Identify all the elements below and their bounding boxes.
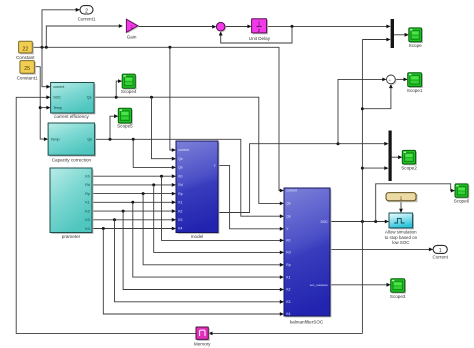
- scope block Scope5: [120, 110, 133, 125]
- svg-text:Allow simulation: Allow simulation: [385, 229, 417, 234]
- subsystem block kalmanfilterSOC: [285, 189, 331, 317]
- wire: up to Current1 outport: [42, 10, 77, 48]
- sum block Sum1: [216, 22, 226, 32]
- svg-text:Current: Current: [433, 254, 449, 259]
- svg-text:Rp: Rp: [286, 263, 290, 267]
- svg-text:Rd: Rd: [178, 183, 182, 187]
- wire: Mux1 output to Scope: [394, 34, 405, 36]
- junction Rd branch: [152, 183, 155, 186]
- wire: down to model current input: [170, 47, 173, 150]
- outport Current1: [80, 6, 93, 15]
- svg-text:K2: K2: [85, 209, 89, 213]
- wire: branch to model Qe input 3: [133, 139, 172, 167]
- port labels prameter: [85, 175, 90, 231]
- svg-text:Qe: Qe: [87, 96, 92, 100]
- svg-text:current efficiency: current efficiency: [54, 114, 89, 119]
- wire: constant 1 to stop block top: [400, 201, 402, 210]
- junction K2 branch: [122, 210, 125, 213]
- junction to Sum2: [337, 142, 340, 145]
- svg-text:Rp: Rp: [178, 192, 182, 196]
- svg-text:K4: K4: [85, 227, 89, 231]
- svg-text:K1: K1: [286, 275, 290, 279]
- svg-text:Rd: Rd: [85, 183, 90, 187]
- svg-text:K1: K1: [85, 201, 89, 205]
- wire: kalman output 2 to Current outport: [330, 248, 430, 250]
- svg-text:Constant1: Constant1: [17, 76, 38, 81]
- svg-text:Temp: Temp: [51, 138, 60, 142]
- subsystem block Capacity correction: [50, 124, 97, 156]
- unit delay block: [253, 20, 268, 34]
- wire: current efficiency Qe to kalman Qe1: [94, 97, 281, 203]
- svg-text:K3: K3: [178, 218, 182, 222]
- svg-text:Qe: Qe: [178, 166, 183, 170]
- svg-text:Scope1: Scope1: [407, 88, 423, 93]
- wire: Mux2 output to Scope2: [392, 156, 399, 158]
- wire: branch to current efficiency Temp: [40, 107, 47, 109]
- junction SOC to vertical bus: [361, 220, 364, 223]
- svg-text:Scope: Scope: [409, 43, 422, 48]
- svg-text:K0: K0: [178, 174, 182, 178]
- svg-text:Current1: Current1: [78, 16, 96, 21]
- svg-text:Qe: Qe: [87, 138, 92, 142]
- wire: to Gain input: [46, 26, 119, 47]
- wire: Capacity correction Qe to kalman Qe2: [95, 139, 281, 216]
- svg-text:Qe: Qe: [286, 214, 291, 218]
- wire: branch to model Qe input 2: [152, 97, 173, 159]
- svg-text:Memory: Memory: [194, 342, 211, 347]
- outport Current: [433, 245, 447, 254]
- port labels Capacity correction: [51, 138, 92, 142]
- wire: model output 2 up to Mux2 input 1: [218, 144, 385, 213]
- junction to model Qe: [150, 96, 153, 99]
- wire: K2 wrap-around to kalman: [123, 211, 280, 289]
- junction SOC to Scope6: [374, 220, 377, 223]
- mux block Mux1: [391, 19, 394, 48]
- constant block 25: [21, 62, 36, 75]
- svg-text:1: 1: [439, 248, 442, 254]
- svg-text:K2: K2: [178, 209, 182, 213]
- wire: Rd wrap-around to kalman: [154, 185, 281, 253]
- wire: model Y output to kalman Y input: [218, 165, 281, 228]
- svg-text:25: 25: [24, 66, 30, 72]
- scope block Scope2: [404, 152, 417, 166]
- memory glyph: [200, 330, 205, 336]
- svg-text:22: 22: [22, 46, 28, 52]
- svg-text:soc_measure: soc_measure: [310, 283, 328, 287]
- svg-text:Capacity correction: Capacity correction: [52, 157, 92, 162]
- svg-text:Scope2: Scope2: [401, 165, 417, 170]
- wire: prameter Rd to model: [92, 184, 173, 186]
- junction Rp branch: [142, 192, 145, 195]
- svg-text:K4: K4: [178, 227, 182, 231]
- svg-text:Gain: Gain: [127, 35, 137, 40]
- junction K3 branch: [113, 218, 116, 221]
- constant block 1 (threshold): [387, 194, 417, 202]
- scope block Scope4: [124, 75, 137, 89]
- svg-text:2: 2: [85, 8, 88, 14]
- junction K0 branch: [160, 175, 163, 178]
- constant block 22: [20, 43, 34, 55]
- svg-text:Constant: Constant: [16, 55, 35, 60]
- junction on unit delay output: [291, 25, 294, 28]
- wire: branch up to Sum2 left input: [338, 79, 383, 143]
- memory block: [197, 328, 209, 340]
- port labels current efficiency: [53, 85, 91, 110]
- junction K1 branch: [131, 201, 134, 204]
- svg-text:kalmanfilterSOC: kalmanfilterSOC: [290, 319, 324, 324]
- wire: feedback to Sum1 bottom: [221, 26, 292, 43]
- svg-text:prameter: prameter: [62, 234, 81, 239]
- wire: prameter K2 to model: [92, 210, 173, 212]
- wire: prameter K0 to model: [92, 175, 173, 177]
- wire: SOC to Sum2 bottom input: [362, 87, 391, 108]
- wire: K0 wrap-around to kalman: [162, 176, 281, 240]
- svg-text:low SOC: low SOC: [392, 240, 409, 245]
- wire: SOC vertical distribution bus: [361, 40, 363, 334]
- svg-text:SOC: SOC: [53, 96, 61, 100]
- svg-text:model: model: [191, 234, 204, 239]
- wire: kalman output 3 to Scope3: [330, 284, 387, 286]
- svg-text:current: current: [53, 85, 64, 89]
- svg-text:Unit Delay: Unit Delay: [249, 36, 271, 41]
- wire: prameter Rp to model: [92, 193, 173, 195]
- svg-text:Scope3: Scope3: [390, 294, 406, 299]
- junction to Scope5: [109, 138, 112, 141]
- svg-text:K4: K4: [286, 312, 290, 316]
- wire: SOC to Scope6: [376, 184, 452, 222]
- junction to Sum2 bottom: [361, 107, 364, 110]
- subsystem block prameter: [51, 169, 93, 234]
- svg-text:Scope4: Scope4: [121, 89, 137, 94]
- svg-text:Rp: Rp: [85, 192, 90, 196]
- junction K4 branch: [102, 227, 105, 230]
- wire: prameter K1 to model: [92, 201, 173, 203]
- svg-text:SOC: SOC: [320, 220, 328, 224]
- port labels model: [178, 148, 216, 231]
- wire: kalman SOC output to stop block: [330, 221, 386, 223]
- svg-text:1: 1: [400, 195, 403, 201]
- junction at (42,47): [41, 46, 44, 49]
- wire: Unit Delay output to Mux1 input 1: [267, 25, 388, 27]
- wire: Memory output feedback to SOC input: [16, 97, 196, 333]
- svg-text:K3: K3: [85, 218, 89, 222]
- scope block Scope: [410, 29, 423, 43]
- junction at (46,47): [45, 46, 48, 49]
- subsystem block model: [177, 142, 219, 234]
- svg-text:to stop based on: to stop based on: [385, 235, 418, 240]
- svg-text:current: current: [286, 189, 297, 193]
- svg-text:K3: K3: [286, 300, 290, 304]
- wire: prameter K3 to model: [92, 219, 173, 221]
- wire: SOC bus to Mux1 input 2: [362, 39, 387, 41]
- svg-text:Scope6: Scope6: [454, 199, 470, 204]
- gain block: [126, 19, 139, 33]
- wire: SOC to Mux2 input 2: [362, 167, 385, 169]
- junction at Temp branch: [39, 106, 42, 109]
- junction to model Qe3: [132, 138, 135, 141]
- sum block Sum2: [387, 75, 397, 85]
- svg-text:Qe: Qe: [178, 157, 183, 161]
- wire: K3 wrap-around to kalman: [115, 220, 281, 302]
- junction at (170,47): [168, 46, 171, 49]
- subsystem block current efficiency: [52, 84, 95, 115]
- svg-text:Qe: Qe: [286, 202, 291, 206]
- port labels kalmanfilterSOC: [286, 189, 328, 317]
- scope block Scope1: [409, 74, 423, 88]
- svg-text:K2: K2: [286, 288, 290, 292]
- svg-text:Rd: Rd: [286, 251, 290, 255]
- svg-text:Temp: Temp: [53, 106, 62, 110]
- wire: Rp wrap-around to kalman: [143, 194, 280, 265]
- svg-text:K0: K0: [286, 239, 290, 243]
- wire: Sum2 output to Scope1: [395, 78, 404, 80]
- wire: Gain output to Sum1: [138, 26, 213, 28]
- scope block Scope3: [392, 280, 406, 294]
- wire: Sum1 to Unit Delay: [225, 26, 248, 28]
- unit delay 1/z glyph: [256, 22, 262, 34]
- wire: SOC bus down to Memory input: [212, 332, 363, 334]
- scope block Scope6: [456, 185, 469, 198]
- svg-text:K0: K0: [85, 175, 89, 179]
- wire: prameter K4 to model: [92, 228, 173, 230]
- wire: down to current efficiency current input: [42, 47, 47, 86]
- stop block step glyph: [394, 218, 404, 223]
- junction to Scope4: [115, 96, 118, 99]
- svg-text:K1: K1: [178, 201, 182, 205]
- junction to Mux2 input 2: [361, 167, 364, 170]
- svg-text:Scope5: Scope5: [117, 124, 133, 129]
- wire: K4 wrap-around to kalman: [103, 229, 280, 315]
- stop simulation block: [390, 214, 414, 229]
- svg-text:current: current: [178, 148, 189, 152]
- wire: K1 wrap-around to kalman: [133, 202, 281, 277]
- label stop block: [385, 229, 418, 245]
- wire: constant 22 current bus to kalman current input: [32, 47, 281, 190]
- wire: branch to Scope4: [116, 81, 119, 97]
- wire: branch to Scope5: [110, 116, 115, 139]
- mux block Mux2: [389, 131, 392, 182]
- wire: Constant1 to Temp inputs: [34, 67, 44, 139]
